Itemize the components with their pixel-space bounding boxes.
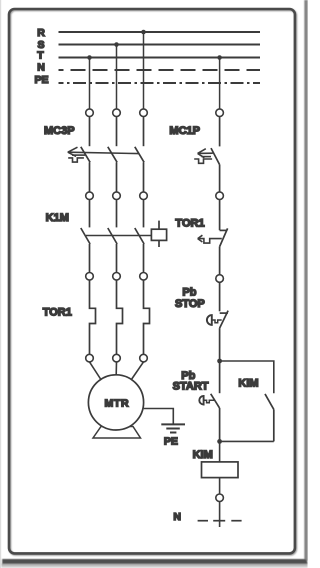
MC3P linkage bar with operator arrow bbox=[68, 147, 139, 162]
svg-text:N: N bbox=[37, 62, 45, 74]
wire motor lead V bbox=[115, 362, 117, 375]
svg-text:R: R bbox=[37, 27, 45, 39]
wire motor frame to earth bbox=[144, 409, 174, 424]
svg-text:TOR1: TOR1 bbox=[175, 218, 204, 230]
svg-text:TOR1: TOR1 bbox=[43, 306, 72, 318]
Pb START stem bbox=[204, 400, 215, 403]
terminal pole3 top bbox=[140, 109, 148, 117]
contactor KIM auxiliary NO contact bbox=[265, 394, 274, 442]
node: branch split junction bbox=[217, 359, 222, 364]
wire pole3 drop from R bbox=[143, 32, 145, 109]
coil KIM bbox=[202, 462, 239, 478]
terminal pole1 top bbox=[86, 109, 94, 117]
terminal pole2 (above TOR1) bbox=[113, 273, 121, 281]
overload TOR1 NC trip contact bbox=[220, 200, 228, 275]
wire motor lead W bbox=[131, 362, 143, 380]
svg-text:MC1P: MC1P bbox=[169, 125, 200, 137]
bus T bbox=[59, 57, 261, 59]
svg-text:PE: PE bbox=[34, 74, 48, 86]
terminal pole1 (above TOR1) bbox=[86, 273, 94, 281]
svg-text:K1M: K1M bbox=[46, 212, 69, 224]
motor MTR base bbox=[93, 427, 141, 439]
bus PE (dash-dot) bbox=[59, 82, 261, 84]
terminal pole2 mid bbox=[113, 192, 121, 200]
terminal control top bbox=[216, 109, 224, 117]
wire control drop from T bbox=[219, 58, 221, 109]
overload TOR1 heater pole 1 bbox=[90, 280, 96, 354]
wire branch to KIM aux bbox=[220, 361, 274, 393]
Pb STOP stem bbox=[212, 320, 222, 323]
breaker K1M pole 3 contact bbox=[135, 200, 144, 273]
wire motor lead U bbox=[90, 362, 101, 380]
overload TOR1 heater pole 2 bbox=[117, 280, 123, 354]
terminal pole1 mid bbox=[86, 192, 94, 200]
terminal coil bottom bbox=[216, 494, 224, 502]
svg-text:PE: PE bbox=[164, 436, 178, 448]
terminal control (above STOP) bbox=[216, 275, 224, 283]
breaker K1M pole 1 contact bbox=[81, 200, 90, 273]
wire coil to terminal bbox=[219, 478, 221, 494]
junction on S (pole 2) bbox=[114, 42, 119, 47]
Pb START button cap bbox=[199, 396, 203, 405]
svg-text:STOP: STOP bbox=[175, 298, 205, 310]
frame: outer left faint edge bbox=[0, 0, 1, 568]
contactor MC3P pole 1 contact bbox=[81, 117, 90, 192]
bus R bbox=[59, 31, 261, 33]
svg-text:T: T bbox=[37, 50, 44, 62]
frame: bottom dark band bbox=[2, 559, 307, 564]
pushbutton Pb STOP (NC) bbox=[220, 282, 229, 361]
terminal pole3 (above TOR1) bbox=[140, 273, 148, 281]
TOR1 trip linkage arrow bbox=[198, 235, 222, 243]
MC1P operator arrow bbox=[194, 149, 213, 164]
pushbutton Pb START (NO) bbox=[211, 361, 220, 441]
Pb STOP button cap bbox=[207, 315, 212, 325]
svg-text:Pb: Pb bbox=[182, 286, 196, 298]
contactor MC1P contact bbox=[211, 117, 220, 192]
bus S bbox=[59, 44, 261, 46]
overload TOR1 heater pole 3 bbox=[144, 280, 150, 354]
contactor MC3P pole 3 contact bbox=[135, 117, 144, 192]
wire terminal to N bbox=[219, 502, 221, 527]
terminal motor U bbox=[86, 354, 94, 362]
junction on R (pole 3) bbox=[141, 30, 146, 35]
terminal pole2 top bbox=[113, 109, 121, 117]
junction on T (control branch) bbox=[217, 55, 222, 60]
terminal motor V bbox=[113, 354, 121, 362]
junction on T (pole 1) bbox=[87, 55, 92, 60]
wire pole1 drop from T bbox=[89, 58, 91, 109]
wire pole2 drop from S bbox=[116, 45, 118, 109]
svg-text:MC3P: MC3P bbox=[44, 125, 75, 137]
net N dashed line bbox=[198, 520, 242, 522]
motor MTR body bbox=[88, 375, 143, 430]
ground PE symbol bbox=[161, 424, 185, 432]
terminal control (below MC1P) bbox=[216, 192, 224, 200]
node: branch rejoin junction bbox=[217, 439, 222, 444]
terminal pole3 mid bbox=[140, 192, 148, 200]
wire junction to coil bbox=[219, 441, 221, 462]
K1M linkage bar bbox=[86, 235, 151, 237]
bus N (dashed) bbox=[59, 69, 261, 71]
svg-text:MTR: MTR bbox=[104, 398, 129, 410]
wire KIM aux return bbox=[220, 440, 274, 442]
svg-text:START: START bbox=[173, 381, 209, 393]
terminal motor W bbox=[140, 354, 148, 362]
K1M trip unit box bbox=[151, 221, 166, 247]
frame: bottom shadow fade bbox=[2, 564, 308, 568]
contactor MC3P pole 2 contact bbox=[108, 117, 117, 192]
svg-text:N: N bbox=[173, 511, 181, 523]
svg-text:KIM: KIM bbox=[238, 377, 258, 389]
breaker K1M pole 2 contact bbox=[108, 200, 117, 273]
svg-text:KIM: KIM bbox=[193, 449, 213, 461]
